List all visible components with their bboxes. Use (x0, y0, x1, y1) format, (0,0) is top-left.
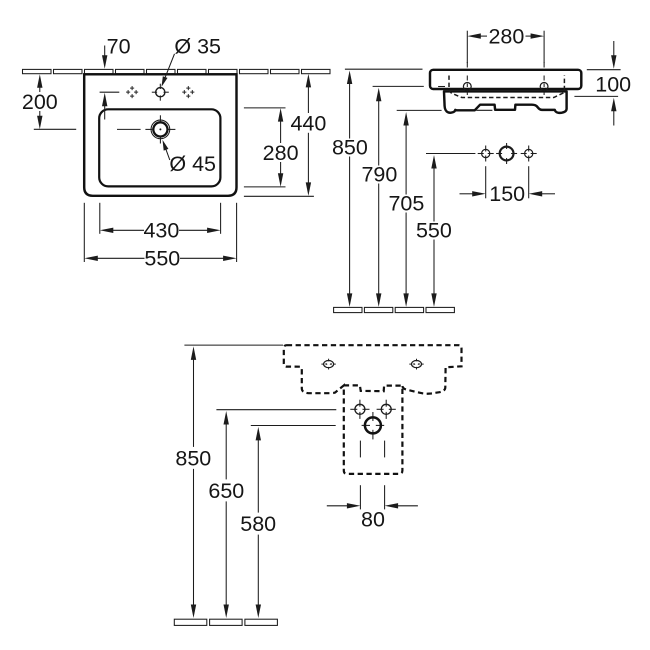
extension line 850 (front) (345, 68, 423, 70)
hidden inner bowl outline (front view) (449, 76, 564, 98)
dimension 200 (drain depth) (37, 74, 42, 88)
waste outlet (front) (496, 153, 502, 155)
hidden outline of basin rear (bottom view) (284, 345, 462, 474)
dimension 550 (overall width) (83, 203, 85, 262)
hidden edge at siphon recess top (bottom view) (344, 385, 403, 391)
dimension 280 (inner bowl depth) (244, 107, 286, 109)
left fixing screw hole at siphon (bottom view) (350, 408, 357, 410)
washbasin body with feet (front view) (444, 91, 567, 113)
right fixing screw hole at siphon (bottom view) (377, 408, 384, 410)
wall hatch line (plan view) (23, 69, 52, 73)
right supply hole (front) (521, 153, 527, 155)
right tap hole mark (plan) (186, 87, 190, 89)
dimension 280 (tap hole spacing) (466, 31, 468, 63)
centre tap hole Ø35 (plan) (152, 91, 157, 93)
svg-text:650: 650 (208, 479, 244, 503)
right fixing hole (bottom view) (412, 361, 422, 368)
leader and label Ø45 (164, 145, 170, 160)
left tap hole (front view) (463, 83, 471, 91)
dimension 705 (body underside height) (403, 112, 408, 126)
svg-text:850: 850 (175, 446, 211, 470)
svg-text:200: 200 (22, 90, 58, 114)
dimension 70 (tap hole offset) (104, 46, 106, 59)
dimension 550 (supply connection height) (431, 155, 436, 169)
extension line 650 (bottom view) (216, 409, 336, 411)
svg-text:280: 280 (263, 141, 299, 165)
extension line 790 (front) (373, 85, 424, 87)
svg-text:280: 280 (488, 25, 524, 49)
svg-text:440: 440 (290, 111, 326, 135)
dimension 80 (drain recess width) (359, 441, 361, 458)
floor hatch line (bottom view) (174, 619, 207, 625)
svg-text:Ø 35: Ø 35 (174, 35, 221, 59)
svg-text:580: 580 (240, 512, 276, 536)
svg-text:850: 850 (332, 136, 368, 160)
extension line 790 stub at body (front) (438, 86, 445, 88)
dimension 150 (supply hole spacing) (485, 166, 487, 198)
dimension 850 (rim height above floor) (347, 71, 352, 85)
drain hole Ø45 (plan) (153, 122, 167, 136)
svg-text:550: 550 (416, 219, 452, 243)
washbasin rim (front view) (430, 70, 581, 89)
svg-text:100: 100 (595, 73, 631, 97)
dimension 650 (siphon fixing height) (224, 411, 229, 425)
dimension 430 (inner bowl width) (99, 203, 101, 234)
svg-text:70: 70 (107, 35, 131, 59)
svg-text:790: 790 (361, 163, 397, 187)
drain outlet (bottom view) (362, 424, 370, 426)
leader and label Ø35 (164, 54, 175, 82)
washbasin outer rim (plan view) (84, 74, 236, 196)
svg-text:150: 150 (489, 182, 525, 206)
svg-text:430: 430 (143, 219, 179, 243)
tap hole centre lines (front view) (466, 62, 468, 68)
left fixing hole (bottom view) (324, 361, 334, 368)
inner bowl outline (plan view) (99, 109, 220, 186)
svg-text:550: 550 (144, 247, 180, 271)
extension line 550 (front) (426, 153, 475, 155)
svg-text:Ø 45: Ø 45 (169, 152, 216, 176)
svg-text:705: 705 (388, 192, 424, 216)
floor hatch line (front view) (334, 307, 362, 312)
left tap hole mark (plan) (130, 87, 134, 89)
extension line 580 (bottom view) (251, 425, 336, 427)
dimension 100 (rim height) (587, 69, 621, 71)
extension line 850 (bottom view) (184, 344, 283, 346)
dimension 580 (drain height) (256, 427, 261, 441)
extension line 705 (front) (397, 109, 442, 111)
svg-text:80: 80 (361, 508, 385, 532)
dimension 790 (rim underside height) (376, 88, 381, 102)
dimension 440 (overall depth) (244, 195, 314, 197)
left supply hole (front) (478, 153, 484, 155)
dimension 850 (top fixing holes height) (191, 346, 196, 360)
back bottom edge line (front view) (476, 109, 492, 111)
right tap hole (front view) (540, 83, 548, 91)
